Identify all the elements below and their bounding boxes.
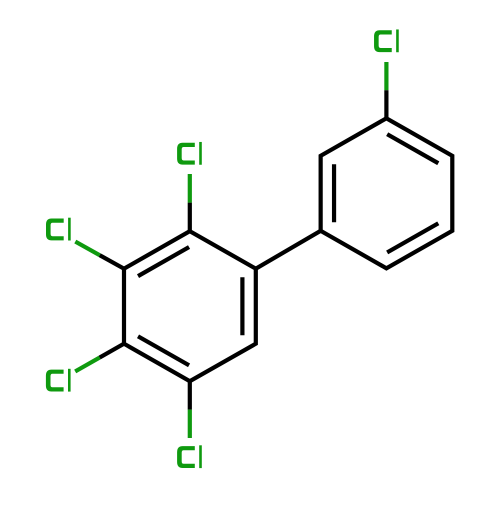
- bond C3'-Cl5 green half: [384, 62, 388, 90]
- ring A double bond inner line C2=C3 (top-left edge): [138, 247, 189, 276]
- bond C4-Cl3 green half: [75, 358, 99, 372]
- biphenyl single bond C1-C1': [256, 231, 321, 269]
- ring A double bond inner line C4=C5 (bottom-left edge): [138, 336, 189, 365]
- bond C2-Cl1 black half: [188, 203, 192, 232]
- ring A: left benzene ring C1-C6: [124, 231, 256, 381]
- atom label Cl1 (ring A position 2): Cl: [177, 142, 202, 165]
- bond C2-Cl1 green half: [188, 174, 192, 203]
- bond C3-Cl2 green half: [75, 242, 99, 256]
- atom label Cl2 (ring A position 3): Cl: [46, 218, 71, 241]
- bond C3'-Cl5 black half: [384, 90, 388, 118]
- atom label Cl3 (ring A position 4): Cl: [46, 369, 71, 392]
- ring A double bond inner line C1=C6 (right edge): [240, 277, 244, 335]
- bond C5-Cl4 black half: [188, 381, 192, 409]
- ring B double bond inner line C3'=C4' (top-right edge): [387, 134, 438, 163]
- atom label Cl4 (ring A position 5): Cl: [177, 445, 202, 468]
- ring B double bond inner line C1'=C2' (left edge): [332, 164, 336, 222]
- bond C3-Cl2 black half: [100, 255, 124, 269]
- bond C5-Cl4 green half: [188, 410, 192, 438]
- ring B: right benzene ring C1'-C6': [321, 118, 453, 268]
- atom label Cl5 (ring B position 3'): Cl: [374, 29, 399, 52]
- bond C4-Cl3 black half: [100, 344, 124, 358]
- ring B double bond inner line C5'=C6' (bottom-right edge): [387, 223, 438, 252]
